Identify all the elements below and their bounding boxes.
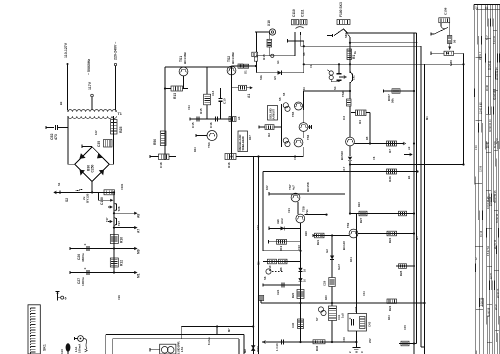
svg-text:G4: G4 xyxy=(276,60,280,64)
svg-text:X10: X10 xyxy=(267,20,271,26)
svg-text:1 C13: 1 C13 xyxy=(275,343,279,351)
svg-text:M5: M5 xyxy=(415,236,419,240)
svg-text:110: 110 xyxy=(60,349,64,354)
svg-text:T27: T27 xyxy=(105,217,109,222)
svg-text:+: + xyxy=(84,267,86,271)
svg-text:BC158: BC158 xyxy=(306,182,310,192)
svg-text:R15: R15 xyxy=(199,108,203,114)
svg-text:C160: C160 xyxy=(100,197,104,205)
svg-text:R19: R19 xyxy=(279,245,283,251)
svg-text:M30: M30 xyxy=(449,60,453,66)
svg-text:56k: 56k xyxy=(391,98,395,103)
svg-text:R17: R17 xyxy=(248,135,252,140)
svg-text:B2: B2 xyxy=(59,101,63,105)
svg-text:8 ohm: 8 ohm xyxy=(207,337,211,345)
svg-text:C110: C110 xyxy=(292,9,296,17)
svg-text:C28: C28 xyxy=(323,280,327,286)
svg-text:R46: R46 xyxy=(315,345,319,351)
svg-text:C13: C13 xyxy=(211,90,215,96)
svg-text:16 40: 16 40 xyxy=(487,141,490,148)
svg-text:G5: G5 xyxy=(273,76,277,80)
svg-text:18 38: 18 38 xyxy=(487,84,489,91)
svg-text:C21: C21 xyxy=(287,208,291,213)
svg-text:32 51 51 64: 32 51 51 64 xyxy=(496,67,499,80)
svg-text:S4: S4 xyxy=(333,86,337,90)
svg-text:R25: R25 xyxy=(119,126,123,133)
svg-text:S1: S1 xyxy=(244,70,248,74)
svg-text:AC2: AC2 xyxy=(280,218,284,224)
svg-text:S6: S6 xyxy=(263,276,267,280)
svg-text:117V: 117V xyxy=(88,81,92,90)
svg-text:C6: C6 xyxy=(372,156,376,160)
svg-text:58 37 50 45: 58 37 50 45 xyxy=(494,190,497,203)
svg-text:18 56 36: 18 56 36 xyxy=(497,213,499,223)
svg-text:C108: C108 xyxy=(444,7,448,15)
svg-text:R6: R6 xyxy=(279,267,283,271)
svg-text:31 12: 31 12 xyxy=(480,230,483,237)
svg-text:C35: C35 xyxy=(97,141,101,147)
svg-text:M4: M4 xyxy=(425,116,429,120)
svg-text:AAN/UIT: AAN/UIT xyxy=(272,109,276,120)
svg-text:TS5: TS5 xyxy=(291,111,295,117)
svg-text:BC548: BC548 xyxy=(340,151,344,160)
svg-text:49 30 20: 49 30 20 xyxy=(497,288,500,298)
svg-text:BC148: BC148 xyxy=(342,241,346,250)
svg-text:C40: C40 xyxy=(291,322,295,328)
svg-text:9 8 27 64: 9 8 27 64 xyxy=(487,246,490,256)
svg-text:TS4: TS4 xyxy=(302,87,306,92)
svg-text:C10: C10 xyxy=(223,98,227,104)
svg-text:R28: R28 xyxy=(399,270,403,276)
svg-text:R12: R12 xyxy=(120,260,124,266)
svg-text:46 22 15: 46 22 15 xyxy=(494,239,497,249)
svg-text:32 24 32: 32 24 32 xyxy=(489,60,492,70)
svg-text:C29: C29 xyxy=(117,295,121,300)
svg-text:C161: C161 xyxy=(120,183,124,190)
svg-text:R1: R1 xyxy=(352,55,356,59)
svg-text:R23: R23 xyxy=(357,202,361,207)
svg-text:1u5: 1u5 xyxy=(341,313,345,318)
svg-text:B1: B1 xyxy=(407,175,411,179)
svg-text:T27: T27 xyxy=(117,221,121,226)
svg-text:16V: 16V xyxy=(265,185,269,190)
svg-text:M7: M7 xyxy=(227,328,231,332)
svg-text:39 68 64 44: 39 68 64 44 xyxy=(489,119,492,132)
svg-text:~ 50/60Hz: ~ 50/60Hz xyxy=(87,59,91,75)
svg-text:TS3: TS3 xyxy=(207,142,211,148)
svg-text:R7: R7 xyxy=(388,149,392,153)
svg-text:R27: R27 xyxy=(359,217,363,223)
svg-text:R50: R50 xyxy=(153,139,157,145)
svg-text:4 13: 4 13 xyxy=(475,145,478,150)
svg-text:M1: M1 xyxy=(137,273,141,278)
svg-text:12V: 12V xyxy=(94,130,98,135)
svg-text:12 56: 12 56 xyxy=(480,165,483,172)
svg-text:C19: C19 xyxy=(293,155,297,160)
svg-text:C1: C1 xyxy=(309,64,313,68)
svg-text:C18: C18 xyxy=(159,162,163,168)
svg-text:R22: R22 xyxy=(388,305,392,311)
svg-text:+: + xyxy=(349,317,351,321)
svg-text:R26: R26 xyxy=(304,231,308,236)
svg-text:S2: S2 xyxy=(65,198,69,202)
svg-text:F100 SK3: F100 SK3 xyxy=(339,2,343,17)
svg-text:M10: M10 xyxy=(268,265,272,271)
svg-text:51 7: 51 7 xyxy=(487,35,489,40)
svg-text:58 52: 58 52 xyxy=(497,137,499,144)
svg-text:R5: R5 xyxy=(365,136,369,140)
svg-text:8 16 29: 8 16 29 xyxy=(480,297,483,306)
svg-text:28 37: 28 37 xyxy=(496,303,498,310)
svg-text:R4: R4 xyxy=(358,120,362,124)
svg-text:G2: G2 xyxy=(325,249,329,253)
svg-text:T1: T1 xyxy=(118,112,122,116)
svg-text:R44: R44 xyxy=(387,315,391,320)
svg-text:LS1: LS1 xyxy=(180,346,184,352)
svg-text:1000u: 1000u xyxy=(81,277,85,286)
svg-text:S2: S2 xyxy=(57,182,61,186)
svg-text:R18: R18 xyxy=(262,54,266,60)
svg-text:C46: C46 xyxy=(342,337,346,342)
svg-text:BC148B: BC148B xyxy=(231,51,235,64)
svg-text:R24: R24 xyxy=(388,237,392,243)
svg-text:C43: C43 xyxy=(368,321,372,327)
svg-text:C42: C42 xyxy=(354,306,358,312)
svg-text:BC148B: BC148B xyxy=(183,51,187,64)
svg-text:41 60 59: 41 60 59 xyxy=(487,307,490,317)
svg-text:M9: M9 xyxy=(137,249,141,254)
svg-text:A1: A1 xyxy=(247,94,251,98)
svg-text:TS6: TS6 xyxy=(306,134,310,140)
svg-text:220-240V ~: 220-240V ~ xyxy=(114,42,118,60)
svg-text:S3: S3 xyxy=(302,52,306,56)
svg-text:+: + xyxy=(84,243,86,247)
svg-text:SK2: SK2 xyxy=(344,32,348,38)
svg-text:R2: R2 xyxy=(267,133,271,137)
svg-text:R21: R21 xyxy=(316,239,320,245)
svg-text:A2: A2 xyxy=(407,146,411,150)
svg-text:25V: 25V xyxy=(368,338,372,343)
svg-text:44 20: 44 20 xyxy=(490,272,493,279)
svg-text:45 64 59 9: 45 64 59 9 xyxy=(494,88,497,100)
svg-text:C14: C14 xyxy=(187,105,191,110)
svg-text:C23: C23 xyxy=(297,245,301,250)
svg-text:S5: S5 xyxy=(282,92,286,96)
svg-text:C15: C15 xyxy=(191,122,195,128)
svg-text:4u7: 4u7 xyxy=(292,185,296,190)
svg-text:R14: R14 xyxy=(193,147,197,152)
svg-text:20 51 7: 20 51 7 xyxy=(479,51,482,60)
svg-text:R10: R10 xyxy=(120,237,124,243)
svg-text:3W2: 3W2 xyxy=(256,346,260,352)
svg-text:0u47: 0u47 xyxy=(337,264,341,270)
svg-text:TS9: TS9 xyxy=(346,222,350,228)
svg-text:C16: C16 xyxy=(209,122,213,128)
svg-text:C250: C250 xyxy=(91,164,95,172)
svg-text:A7: A7 xyxy=(137,229,141,233)
svg-text:BY126: BY126 xyxy=(86,193,90,203)
svg-text:473: 473 xyxy=(54,134,58,140)
svg-text:R13: R13 xyxy=(173,93,177,99)
svg-text:A3: A3 xyxy=(237,116,241,120)
svg-text:10 16 66: 10 16 66 xyxy=(490,196,492,206)
svg-text:C22: C22 xyxy=(256,225,260,230)
svg-text:R16: R16 xyxy=(227,162,231,168)
svg-text:6 10 41: 6 10 41 xyxy=(493,35,496,44)
svg-text:C3: C3 xyxy=(342,116,346,120)
svg-text:R33: R33 xyxy=(388,176,392,182)
svg-text:100mA: 100mA xyxy=(78,344,82,353)
svg-text:4600u: 4600u xyxy=(81,253,85,262)
svg-text:S1b: S1b xyxy=(259,75,263,80)
svg-text:C45: C45 xyxy=(403,325,407,330)
svg-text:R40: R40 xyxy=(324,295,328,300)
svg-text:C111: C111 xyxy=(301,9,305,17)
svg-text:SK1: SK1 xyxy=(43,344,47,351)
svg-text:R20: R20 xyxy=(291,292,295,298)
svg-text:13 47 8 65: 13 47 8 65 xyxy=(479,102,482,114)
svg-text:S7: S7 xyxy=(315,317,319,321)
svg-text:S5: S5 xyxy=(278,97,282,101)
svg-text:R41: R41 xyxy=(349,257,353,262)
svg-text:1k1: 1k1 xyxy=(352,75,356,80)
svg-text:A8: A8 xyxy=(137,214,141,218)
svg-text:T26: T26 xyxy=(117,206,121,211)
svg-text:6: 6 xyxy=(65,297,67,301)
svg-text:56: 56 xyxy=(453,39,457,43)
svg-text:7k1: 7k1 xyxy=(305,209,309,214)
svg-text:M8: M8 xyxy=(243,349,247,353)
svg-text:C24: C24 xyxy=(276,289,280,295)
svg-text:C44: C44 xyxy=(362,291,366,296)
svg-text:REGELAAR: REGELAAR xyxy=(238,135,242,151)
svg-text:110-127V: 110-127V xyxy=(64,42,68,58)
